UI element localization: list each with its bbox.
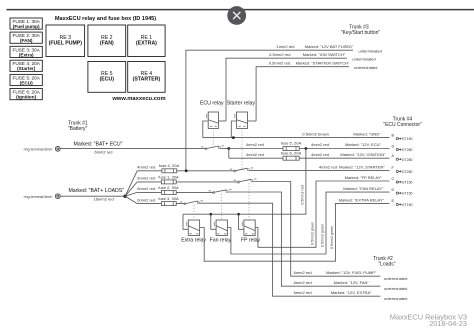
- pin B connector GT150: [392, 133, 413, 141]
- fuse 1 symbol: [161, 180, 176, 184]
- svg-text:fuse 6, 20A: fuse 6, 20A: [281, 150, 302, 155]
- svg-text:Marked: "STARTER SWITCH": Marked: "STARTER SWITCH": [296, 61, 350, 66]
- wire FP load to trunk2 row 1: [253, 182, 380, 277]
- svg-text:GT150: GT150: [402, 137, 413, 141]
- junction fuse5/fuse6 split: [227, 147, 230, 150]
- svg-text:6mm2 red: 6mm2 red: [294, 280, 312, 285]
- svg-text:Marked: "BAT+ LOADS": Marked: "BAT+ LOADS": [68, 188, 124, 194]
- trunk #2 row 2 labels (12V FAN): [294, 280, 408, 291]
- FP relay contact switch: [234, 178, 257, 183]
- dotted link FP relay coil to contact: [248, 183, 250, 220]
- wire Fan relay coil- green to ECU pin D: [227, 186, 389, 254]
- svg-text:Fan relay: Fan relay: [210, 238, 232, 244]
- svg-text:(FAN): (FAN): [20, 38, 33, 43]
- wire FP relay coil- green to ECU pin C: [255, 175, 389, 247]
- fuse F6 legend box: [10, 89, 42, 100]
- svg-text:(Starter): (Starter): [17, 66, 36, 71]
- svg-text:4mm2 red: 4mm2 red: [311, 142, 329, 147]
- svg-text:(Fuel pump): (Fuel pump): [13, 24, 40, 29]
- wire coil feed drop to Fan relay: [211, 214, 216, 229]
- junction 12V BAT FUSED tap: [185, 169, 188, 172]
- relay FP (coil box): [242, 220, 255, 236]
- svg-text:Marked: "EXTRA RELAY": Marked: "EXTRA RELAY": [339, 197, 385, 202]
- pin C connector GT150: [392, 177, 413, 185]
- svg-text:unterminated: unterminated: [359, 49, 382, 54]
- svg-text:unterminated: unterminated: [384, 296, 407, 301]
- trunk #1 label "Battery": [68, 121, 88, 133]
- fuse F3 legend box: [10, 46, 42, 57]
- svg-text:Marked: "FP RELAY": Marked: "FP RELAY": [345, 175, 383, 180]
- svg-text:Marked: "12V, IGNITION": Marked: "12V, IGNITION": [340, 152, 386, 157]
- Starter relay contact switch: [230, 167, 253, 172]
- fuse 5 symbol: [283, 147, 299, 151]
- trunk #3 label "Key/Start button": [341, 24, 381, 36]
- svg-text:0.5mm2 red: 0.5mm2 red: [269, 52, 290, 57]
- svg-text:GT150: GT150: [402, 181, 413, 185]
- wire 12V ECU row with fuse 5: [229, 141, 390, 149]
- svg-text:unterminated: unterminated: [384, 276, 407, 281]
- svg-text:www.maxxecu.com: www.maxxecu.com: [111, 96, 165, 102]
- svg-text:(FUEL PUMP): (FUEL PUMP): [49, 41, 83, 47]
- ring terminal 6mm (BAT+ LOADS): [24, 194, 61, 199]
- wire fuse6 branch down: [228, 149, 230, 159]
- svg-text:16mm2 red: 16mm2 red: [93, 197, 113, 202]
- svg-text:fuse 5, 20A: fuse 5, 20A: [281, 141, 302, 146]
- relay ECU (coil box): [200, 101, 224, 129]
- relay Starter (coil box): [227, 101, 256, 129]
- svg-text:0.5mm2 green: 0.5mm2 green: [330, 226, 334, 249]
- relay RE3 legend box: [46, 25, 85, 57]
- svg-text:0.5mm2 green: 0.5mm2 green: [310, 222, 314, 245]
- relay Extra (coil box): [186, 220, 200, 236]
- svg-text:G: G: [392, 144, 395, 148]
- svg-text:"Loads": "Loads": [378, 262, 395, 268]
- svg-text:0.5mm2 red: 0.5mm2 red: [300, 185, 304, 204]
- svg-text:Marked: "BAT+ ECU": Marked: "BAT+ ECU": [74, 141, 123, 147]
- wire fan load to trunk2 row 2: [228, 192, 380, 286]
- svg-text:"Key/Start button": "Key/Start button": [341, 30, 381, 36]
- pin F connector GT280: [392, 166, 413, 174]
- svg-text:GT280: GT280: [402, 170, 413, 174]
- fuse 2 symbol: [161, 190, 176, 194]
- svg-text:(ECU): (ECU): [100, 77, 115, 83]
- dotted link Fan relay coil to contact: [221, 194, 223, 220]
- svg-text:ring terminal 6mm: ring terminal 6mm: [24, 195, 53, 199]
- svg-text:GT150: GT150: [402, 192, 413, 196]
- svg-text:C: C: [392, 177, 395, 181]
- svg-text:0.5mm2 green: 0.5mm2 green: [320, 224, 324, 247]
- svg-text:"ECU Connector": "ECU Connector": [383, 122, 422, 128]
- svg-text:(FAN): (FAN): [100, 41, 114, 47]
- modal close button: [227, 6, 246, 25]
- wire IGN SWITCH (trunk #3 wire 2): [226, 52, 376, 121]
- wire fan load row with fuse 2: [137, 185, 213, 193]
- svg-text:6mm2 red: 6mm2 red: [137, 186, 155, 191]
- wire branch to fuse 3 row: [125, 196, 137, 203]
- wire ECU relay coil+ stub to IGN SWITCH: [218, 120, 226, 122]
- wire BAT+ ECU (battery to ECU relay contact): [60, 141, 206, 154]
- svg-text:fuse 1, 30A: fuse 1, 30A: [158, 174, 179, 179]
- svg-text:2018-04-23: 2018-04-23: [429, 319, 467, 328]
- svg-text:fuse 4, 20A: fuse 4, 20A: [159, 163, 180, 168]
- Extra relay contact switch: [180, 200, 203, 205]
- trunk #2 row 3 labels (12V EXTRA): [294, 290, 408, 301]
- wire extra load row with fuse 3: [137, 196, 185, 204]
- svg-text:fuse 2, 30A: fuse 2, 30A: [158, 185, 179, 190]
- svg-text:6mm2 red: 6mm2 red: [294, 270, 312, 275]
- wire coil feed drop to FP relay: [239, 214, 244, 229]
- wire 12V STARTER row with fuse 4: [137, 163, 235, 171]
- ECU relay contact switch: [201, 145, 224, 150]
- ring terminal 6mm (BAT+ ECU): [24, 146, 61, 151]
- relay RE1 legend box: [128, 25, 165, 57]
- fuse 4 symbol: [162, 169, 177, 173]
- svg-text:Extra relay: Extra relay: [181, 238, 206, 244]
- svg-text:D: D: [392, 188, 395, 192]
- fuse F1 legend box: [10, 18, 42, 29]
- svg-text:Marked: "12V, STARTER": Marked: "12V, STARTER": [339, 164, 385, 169]
- fuse F2 legend box: [10, 32, 42, 43]
- wire ECU relay contact to fuse split node: [221, 148, 229, 150]
- svg-text:(Extra): (Extra): [19, 52, 34, 57]
- wire coil feed drop to Extra relay: [183, 214, 188, 229]
- wire GND to ECU pin B: [203, 132, 390, 138]
- svg-text:Marked: "12V, FAN": Marked: "12V, FAN": [334, 280, 370, 285]
- svg-text:4mm2 red: 4mm2 red: [246, 152, 264, 157]
- wire fuel pump load row with fuse 1: [137, 174, 238, 182]
- junction 12V ECU to coil feed: [305, 147, 308, 150]
- svg-text:0.5mm2 red: 0.5mm2 red: [269, 61, 290, 66]
- svg-text:6mm2 red: 6mm2 red: [137, 197, 155, 202]
- wire Extra relay coil- green to ECU pin E: [200, 197, 390, 261]
- svg-text:GT280: GT280: [402, 148, 413, 152]
- wire branch to fuse 2 row: [125, 192, 137, 196]
- svg-text:"Battery": "Battery": [68, 126, 88, 132]
- junction BAT+ LOADS fanout: [123, 195, 126, 198]
- svg-text:6mm2 red: 6mm2 red: [137, 176, 155, 181]
- wire BAT+ LOADS: [60, 188, 125, 202]
- wire starter contact to ECU pin F: [250, 164, 390, 170]
- svg-text:unterminated: unterminated: [384, 286, 407, 291]
- wire ECU relay coil- to GND bus: [203, 121, 208, 138]
- relay RE5 legend box: [88, 62, 126, 93]
- svg-text:ring terminal 6mm: ring terminal 6mm: [24, 147, 53, 151]
- svg-text:Marked: "IGN SWITCH": Marked: "IGN SWITCH": [303, 52, 346, 57]
- svg-text:unterminated: unterminated: [352, 57, 375, 62]
- trunk #2 row 1 labels (12V FUEL PUMP): [294, 270, 408, 281]
- wire Starter relay coil- to GND bus: [231, 121, 236, 138]
- svg-text:(STARTER): (STARTER): [133, 77, 161, 83]
- svg-text:Marked: "12V, EXTRA": Marked: "12V, EXTRA": [331, 290, 372, 295]
- trunk #2 label "Loads": [373, 256, 396, 268]
- trunk #4 label "ECU Connector": [383, 117, 422, 129]
- relay Fan (coil box): [214, 220, 228, 236]
- svg-text:6mm2 red: 6mm2 red: [94, 150, 112, 155]
- svg-text:Marked: "12V, FUEL PUMP": Marked: "12V, FUEL PUMP": [326, 270, 377, 275]
- svg-text:(EXTRA): (EXTRA): [136, 41, 157, 47]
- fuse 3 symbol: [161, 202, 176, 206]
- wire 12V IGNITION row with fuse 6: [229, 150, 390, 158]
- relay RE2 legend box: [88, 25, 126, 57]
- fuse F5 legend box: [10, 74, 42, 85]
- svg-text:Marked: "12V BAT FUSED": Marked: "12V BAT FUSED": [305, 44, 354, 49]
- svg-text:(ECU): (ECU): [20, 80, 33, 85]
- dotted link ECU relay coil to contact: [212, 129, 214, 148]
- svg-text:Marked: "FAN RELAY": Marked: "FAN RELAY": [343, 186, 384, 191]
- dotted link Starter relay coil to contact: [241, 129, 243, 170]
- credit text: [390, 312, 467, 328]
- svg-text:4mm2 red: 4mm2 red: [137, 165, 155, 170]
- wire branch to fuse 4 row: [125, 171, 137, 196]
- svg-text:Marked: "12V, ECU": Marked: "12V, ECU": [345, 142, 381, 147]
- relay RE4 legend box: [128, 62, 165, 93]
- pin A connector GT280: [392, 154, 413, 162]
- svg-text:1mm2 red: 1mm2 red: [276, 44, 294, 49]
- svg-text:4mm2 red: 4mm2 red: [319, 164, 337, 169]
- pin E connector GT150: [392, 199, 413, 207]
- junction coil feed to Fan relay: [210, 213, 213, 216]
- pin D connector GT150: [392, 188, 413, 196]
- modal top divider line: [7, 9, 474, 11]
- svg-text:0.5mm2 brown: 0.5mm2 brown: [302, 132, 328, 137]
- svg-text:MaxxECU relay and fuse box (ID: MaxxECU relay and fuse box (ID 1945): [55, 16, 156, 22]
- svg-text:6mm2 red: 6mm2 red: [294, 290, 312, 295]
- pin G connector GT280: [392, 144, 413, 152]
- svg-text:(Ignition): (Ignition): [16, 95, 36, 100]
- svg-text:GT150: GT150: [402, 203, 413, 207]
- svg-text:fuse 3, 30A: fuse 3, 30A: [158, 196, 179, 201]
- wire Starter relay coil+ stub to STARTER SWITCH: [248, 120, 257, 122]
- Fan relay contact switch: [209, 189, 232, 194]
- svg-text:ECU relay: ECU relay: [200, 101, 224, 107]
- svg-text:4mm2 red: 4mm2 red: [246, 142, 264, 147]
- wire 12V BAT FUSED (trunk #3 wire 1): [186, 44, 382, 171]
- fuse F4 legend box: [10, 60, 42, 71]
- wire branch to fuse 1 row: [125, 182, 137, 196]
- svg-text:unterminated: unterminated: [354, 65, 377, 70]
- svg-text:Marked: "GND": Marked: "GND": [353, 132, 381, 137]
- svg-text:GT280: GT280: [402, 158, 413, 162]
- wire extra load to trunk2 row 3: [200, 203, 381, 296]
- dotted link Extra relay coil to contact: [193, 205, 195, 220]
- junction GND node: [232, 136, 235, 139]
- wire 0.5mm2 red coil feed from 12V ECU row: [183, 149, 306, 215]
- svg-text:Starter relay: Starter relay: [227, 101, 256, 107]
- junction coil feed to FP relay: [237, 213, 240, 216]
- wire STARTER SWITCH (trunk #3 wire 3): [256, 61, 377, 121]
- svg-text:4mm2 red: 4mm2 red: [311, 152, 329, 157]
- fuse 6 symbol: [283, 156, 299, 160]
